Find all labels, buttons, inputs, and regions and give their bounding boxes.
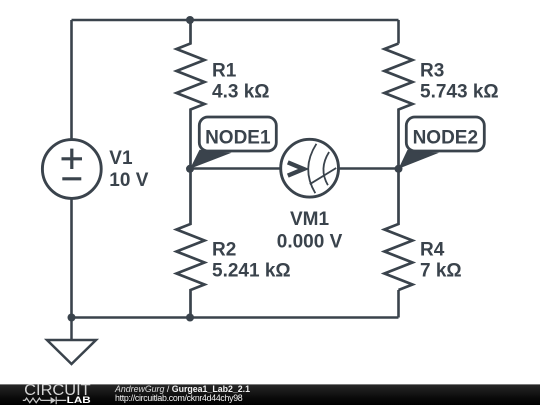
label R4 value bbox=[420, 240, 462, 282]
wire bottom rail bbox=[72, 316, 399, 319]
label R3 value bbox=[420, 60, 499, 102]
svg-text:R2: R2 bbox=[212, 240, 236, 261]
svg-text:R1: R1 bbox=[212, 60, 237, 81]
svg-text:NODE2: NODE2 bbox=[413, 127, 478, 148]
wire voltmeter to node2 bbox=[338, 167, 398, 170]
junction node dot bottom R2 bbox=[186, 314, 194, 322]
junction node dot NODE1 bbox=[186, 165, 194, 173]
svg-text:7 kΩ: 7 kΩ bbox=[420, 260, 462, 281]
node NODE1 callout bbox=[190, 117, 276, 169]
resistor R2 bbox=[177, 169, 205, 318]
footer url text bbox=[115, 393, 242, 403]
footer title text bbox=[115, 384, 250, 394]
resistor R3 bbox=[385, 44, 413, 170]
junction node dot ground bbox=[68, 314, 76, 322]
wire left branch lower bbox=[70, 199, 73, 318]
svg-text:VM1: VM1 bbox=[290, 209, 330, 230]
svg-text:5.241 kΩ: 5.241 kΩ bbox=[212, 260, 291, 281]
svg-text:5.743 kΩ: 5.743 kΩ bbox=[420, 82, 499, 103]
circuitlab logo bbox=[0, 384, 110, 405]
svg-text:0.000 V: 0.000 V bbox=[277, 231, 343, 252]
resistor R1 bbox=[177, 20, 205, 169]
label VM1 value bbox=[277, 209, 343, 252]
wire right branch bottom corner bbox=[397, 290, 400, 318]
wire left branch upper bbox=[70, 20, 73, 139]
svg-text:R3: R3 bbox=[420, 60, 444, 81]
node NODE2 callout bbox=[399, 117, 485, 169]
junction node dot top bbox=[186, 16, 194, 24]
label V1 value bbox=[109, 148, 148, 191]
svg-text:NODE1: NODE1 bbox=[205, 127, 271, 148]
label R2 value bbox=[212, 240, 291, 282]
junction node dot NODE2 bbox=[395, 165, 403, 173]
resistor R4 bbox=[385, 169, 413, 290]
svg-text:4.3 kΩ: 4.3 kΩ bbox=[212, 82, 270, 103]
footer bar bbox=[0, 384, 540, 405]
voltage source V1 bbox=[42, 140, 101, 199]
wire node1 to voltmeter bbox=[190, 167, 281, 170]
svg-text:V1: V1 bbox=[109, 148, 133, 169]
ground bbox=[47, 318, 96, 365]
label R1 value bbox=[212, 60, 270, 102]
voltmeter VM1 bbox=[281, 139, 339, 197]
svg-text:10 V: 10 V bbox=[109, 170, 148, 191]
wire right branch top corner bbox=[397, 20, 400, 44]
svg-text:LAB: LAB bbox=[67, 395, 92, 405]
svg-text:R4: R4 bbox=[420, 240, 445, 261]
wire top rail bbox=[72, 19, 399, 22]
